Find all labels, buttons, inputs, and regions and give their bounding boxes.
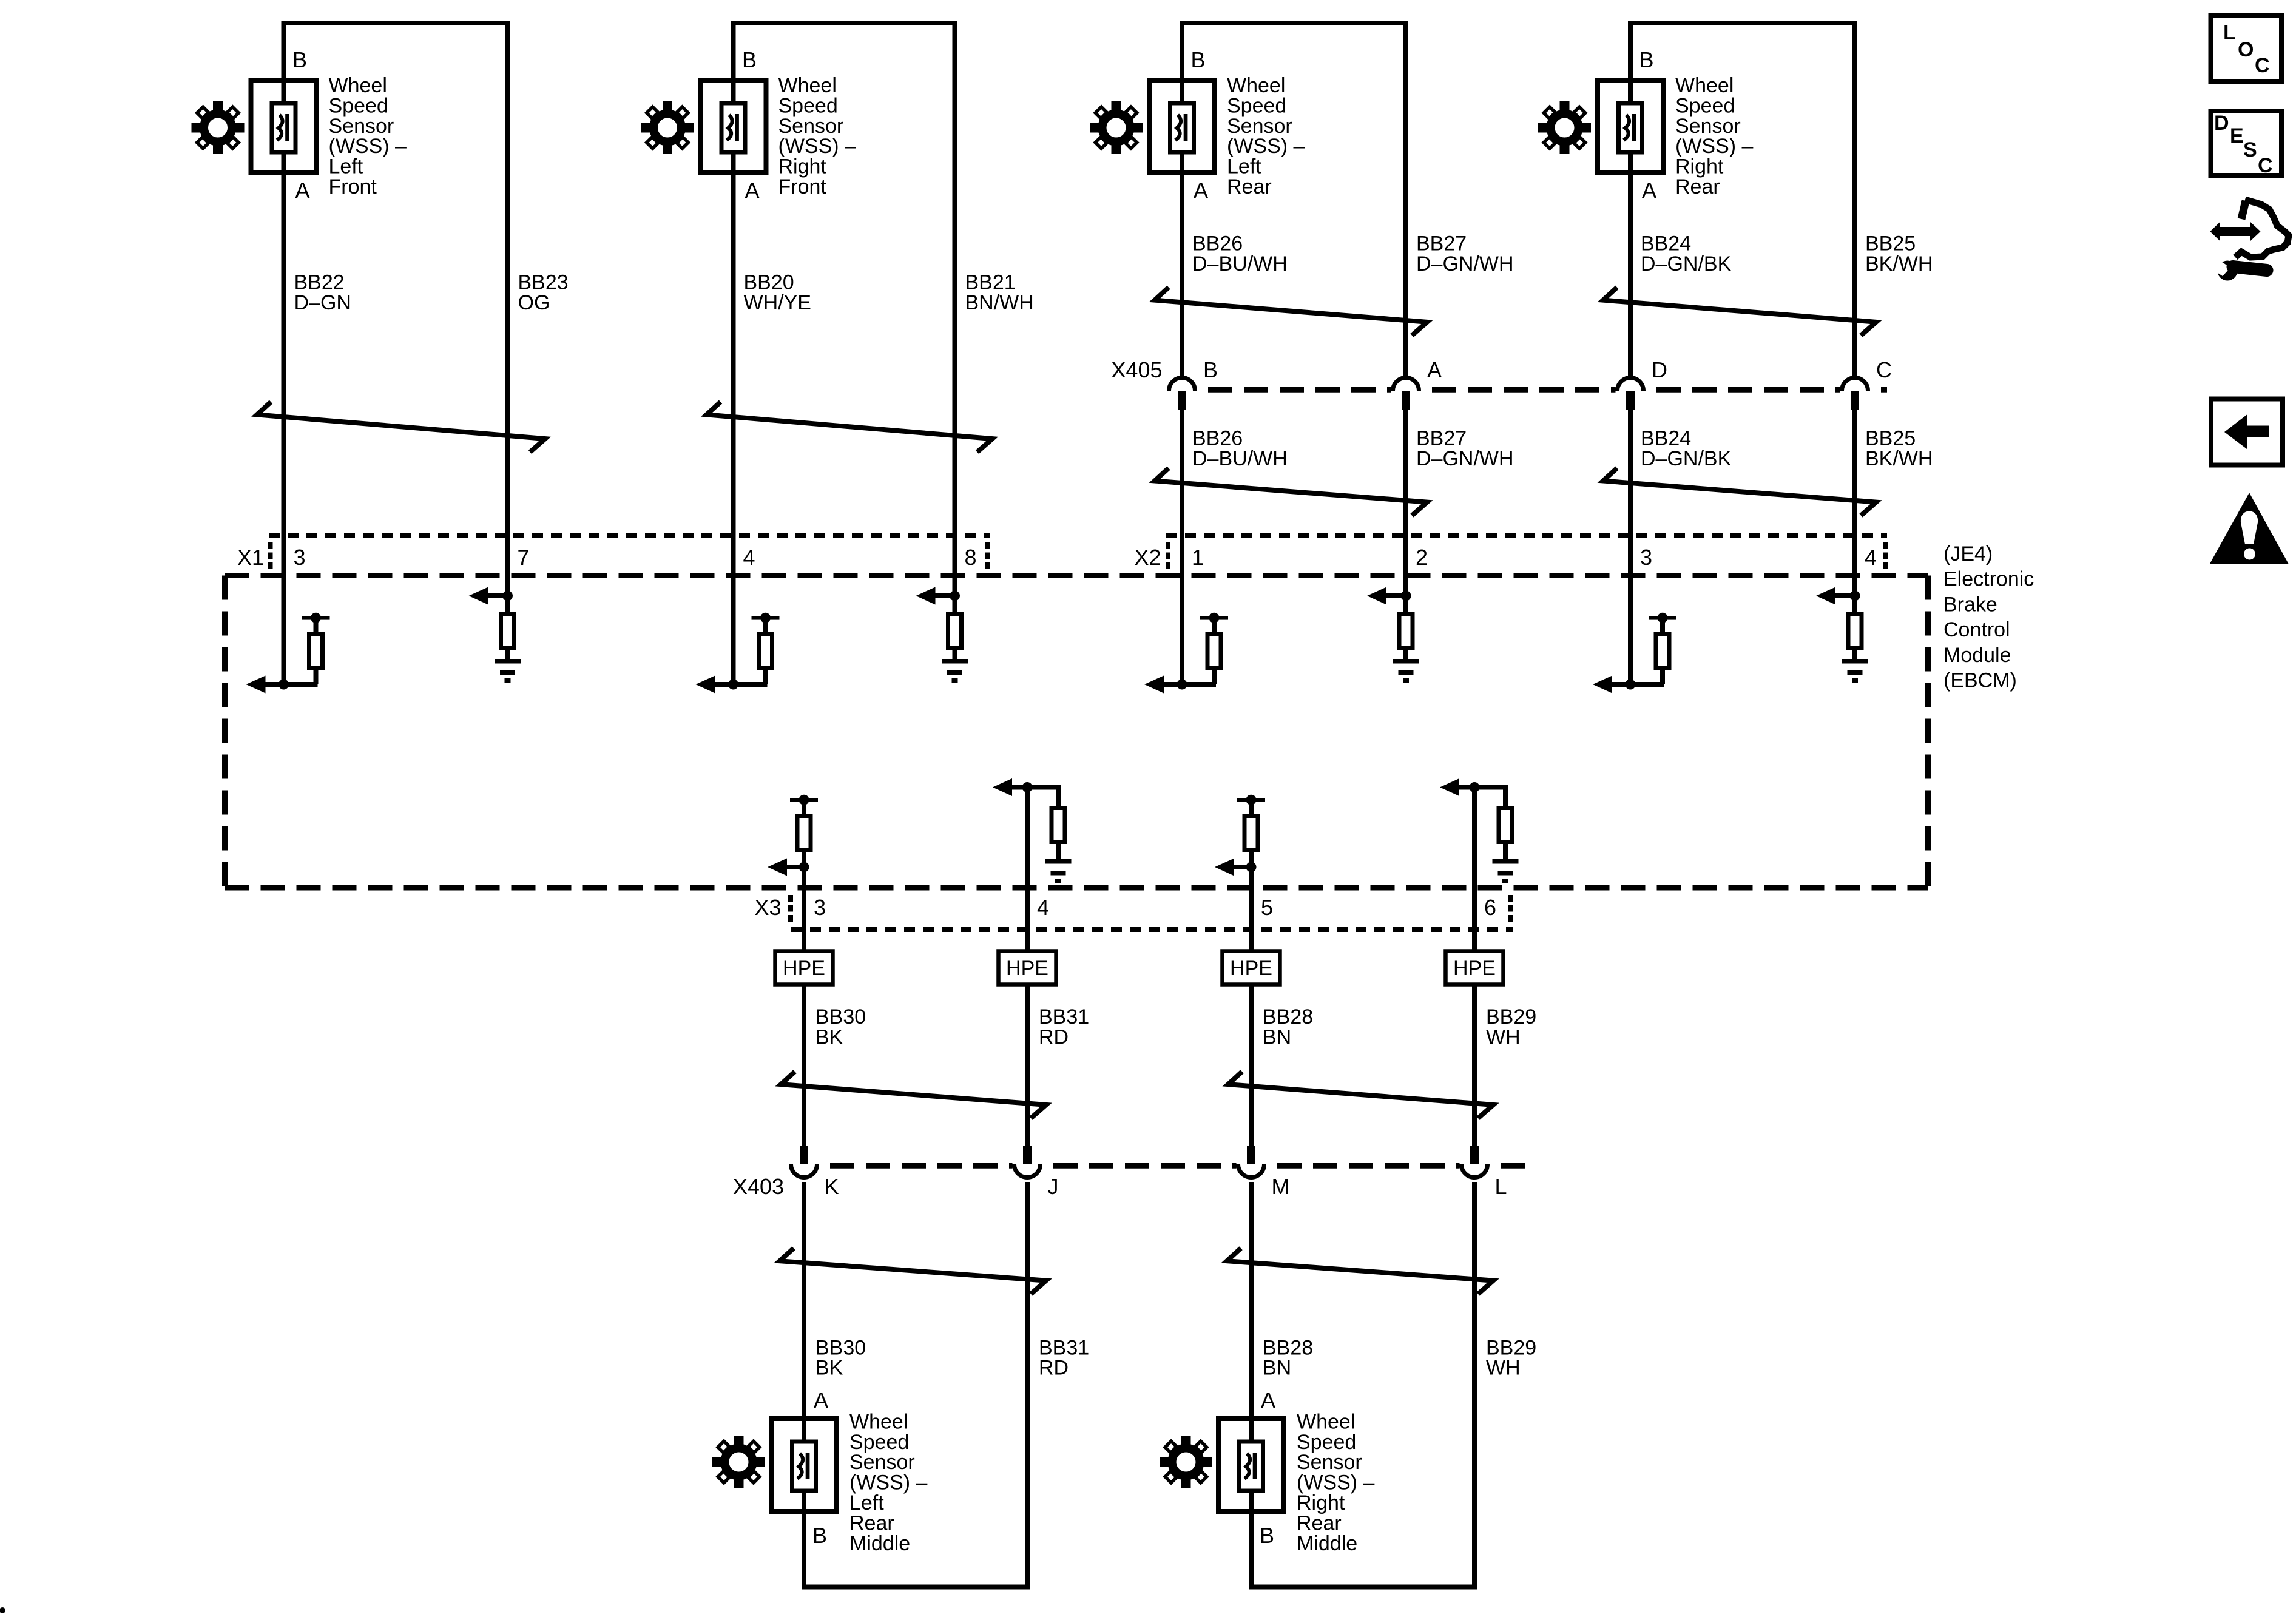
connector X1 right end cap <box>985 542 990 570</box>
wire: WSS-LRM bottom bus <box>802 1585 1030 1590</box>
connector X405 terminal B <box>1169 378 1195 410</box>
icon LOC box <box>2211 16 2282 82</box>
connector X3 dotted line <box>791 927 1513 932</box>
resistor X2 pin 1 <box>1207 635 1221 669</box>
twisted pair symbol loop 4 upper <box>1603 288 1876 336</box>
wire: loop 2 left vertical through sensor <box>731 21 736 173</box>
junction dot X1 pin 8 <box>950 591 960 601</box>
svg-text:J: J <box>1048 1174 1059 1199</box>
resistor X1 pin 4 <box>759 635 772 669</box>
resistor X2 pin 2 <box>1399 615 1413 649</box>
connector X3 left end cap <box>788 895 793 923</box>
wheel speed sensor WSS3 body <box>1149 80 1215 173</box>
ground X2 pin 4 <box>1842 659 1868 683</box>
svg-text:HPE: HPE <box>1006 957 1048 980</box>
EBCM module dashed border top <box>225 573 1928 578</box>
arrow X2 pin 2 internal <box>1367 587 1386 605</box>
arrow X3 pin 4 internal <box>993 778 1012 796</box>
svg-text:B: B <box>1639 47 1654 72</box>
connector X2 dotted line <box>1166 533 1887 538</box>
connector X403 terminal J <box>1015 1146 1041 1178</box>
icon DESC box <box>2211 111 2282 175</box>
icon back-arrow box <box>2211 399 2283 465</box>
wire: X2 pin 1 junction horizontal <box>1161 682 1216 687</box>
wheel speed sensor WSS-LRM body <box>771 1419 837 1511</box>
wheel speed sensor WSS2 gear <box>632 92 703 163</box>
wire: X3 pin 3 down to connector <box>802 867 806 951</box>
resistor X1 pin 7 <box>501 615 515 649</box>
ground X3 pin 6 <box>1493 859 1519 883</box>
junction dot X1 pin 4 <box>728 680 738 690</box>
wire: BB29 X403 down <box>1472 1182 1477 1585</box>
wire: X2 pin 3 resistor top stub <box>1660 616 1665 635</box>
svg-text:X403: X403 <box>733 1174 784 1199</box>
icon connector-repair (double arrow, plug outline, wrench) <box>2210 200 2289 281</box>
connector X2 right end cap <box>1883 542 1888 570</box>
junction dot X3 pin 5 <box>1246 862 1257 873</box>
wire: BB29 HPE to X403 <box>1472 984 1477 1147</box>
svg-text:B: B <box>1260 1523 1274 1548</box>
wire: X1 pin 4 resistor top stub <box>763 616 768 635</box>
connector X405 terminal C <box>1842 378 1868 410</box>
wire: BB31 X403 down <box>1025 1182 1030 1585</box>
svg-text:B: B <box>1203 357 1218 382</box>
svg-text:A: A <box>814 1388 828 1413</box>
wire: loop 3 right side down to X405 <box>1403 21 1408 377</box>
wire: loop 4 left vertical through sensor <box>1628 21 1633 173</box>
wire: X2 pin 4 ground stub <box>1852 650 1857 660</box>
wire: X2 pin 2 ground stub <box>1403 650 1408 660</box>
wire: WSS-LRM right side up to bus <box>1025 1585 1030 1587</box>
twisted pair symbol loop 3 lower <box>1155 468 1427 516</box>
svg-text:3: 3 <box>1640 545 1652 570</box>
svg-text:HPE: HPE <box>783 957 825 980</box>
wire: X1 pin 4 internal stub <box>731 570 736 684</box>
wire: BB28 X403 down <box>1249 1182 1254 1511</box>
wire: X3 pin 3 resistor top stub <box>802 800 806 816</box>
svg-text:C: C <box>1876 357 1892 382</box>
svg-text:4: 4 <box>743 545 755 570</box>
wire: X3 pin 3 resistor to junction <box>802 849 806 869</box>
junction dot X2 pin 1 <box>1177 680 1187 690</box>
HPE splice box at x=2430 <box>1446 951 1504 985</box>
wire: X2 pin 1 resistor top stub <box>1212 616 1217 635</box>
wire: X1 pin 3 resistor top stub <box>314 616 319 635</box>
svg-text:7: 7 <box>518 545 530 570</box>
wire: X1 pin 8 internal stub <box>953 570 957 614</box>
junction dot X3 pin 3 <box>799 862 809 873</box>
ground X3 pin 4 <box>1045 859 1072 883</box>
wire: loop 3 A-side X405 to EBCM <box>1180 410 1184 684</box>
svg-text:B: B <box>812 1523 827 1548</box>
junction dot X3 pin 6 <box>1470 782 1480 792</box>
svg-text:M: M <box>1272 1174 1290 1199</box>
HPE splice box at x=1693 <box>999 951 1056 985</box>
twisted pair symbol BB30/BB31 above X403 <box>781 1072 1046 1118</box>
wire: top loop 3 B-side bus <box>1180 21 1408 25</box>
wire: loop 2 right side down to EBCM <box>953 21 957 596</box>
wire: X3 pin 5 junction horizontal <box>1231 865 1251 869</box>
wheel speed sensor WSS2 body <box>701 80 766 173</box>
wire: BB30 HPE to X403 <box>802 984 806 1147</box>
wire: X2 pin 1 resistor riser <box>1212 667 1217 684</box>
svg-text:A: A <box>1194 178 1208 203</box>
wire: X3 pin 3 junction horizontal <box>783 865 804 869</box>
supply T-bar X2 pin 3 <box>1649 613 1676 623</box>
arrow X3 pin 6 internal <box>1440 778 1459 796</box>
svg-text:L: L <box>1495 1174 1507 1199</box>
wire: loop 4 right side down to X405 <box>1852 21 1857 377</box>
wire: X2 pin 3 internal stub <box>1628 570 1633 684</box>
resistor X3 pin 3 <box>797 816 811 850</box>
wire: loop 4 right side X405 to EBCM <box>1852 410 1857 596</box>
resistor X3 pin 6 <box>1499 808 1512 842</box>
wire: WSS-RRM B-side down <box>1249 1510 1254 1587</box>
wire: top loop 2 B-side bus <box>731 21 957 25</box>
EBCM module dashed border left <box>222 576 228 888</box>
wire: X1 pin 8 junction horizontal <box>934 593 955 598</box>
ground X2 pin 2 <box>1393 659 1419 683</box>
wire: X3 pin 4 resistor drop <box>1056 785 1061 809</box>
EBCM module dashed border right <box>1925 576 1931 888</box>
wheel speed sensor WSS1 gear <box>182 92 253 163</box>
wire: top loop 1 B-side bus <box>282 21 510 25</box>
wire: X2 pin 1 internal stub <box>1180 570 1184 684</box>
wire: loop 1 right side down to EBCM <box>505 21 510 596</box>
wheel speed sensor WSS4 gear <box>1529 92 1600 163</box>
HPE splice box at x=2062 <box>1223 951 1280 985</box>
svg-text:A: A <box>1427 357 1442 382</box>
wire: WSS-RRM right side up to bus <box>1472 1585 1477 1587</box>
twisted pair symbol loop 1 <box>257 402 545 452</box>
wire: X2 pin 2 junction horizontal <box>1385 593 1406 598</box>
connector X403 terminal M <box>1238 1146 1264 1178</box>
connector X1 left end cap <box>268 542 273 570</box>
resistor X3 pin 5 <box>1244 816 1258 850</box>
twisted pair symbol BB30/BB31 below X403 <box>780 1248 1046 1294</box>
svg-text:BB22D–GN: BB22D–GN <box>294 271 351 314</box>
wire: BB30 X403 down <box>802 1182 806 1511</box>
wire: X1 pin 4 resistor riser <box>763 667 768 684</box>
svg-text:4: 4 <box>1037 895 1049 920</box>
arrow X3 pin 5 internal <box>1215 859 1234 876</box>
connector X405 terminal A <box>1393 378 1419 410</box>
icon warning triangle <box>2210 493 2289 564</box>
wire: X1 pin 7 ground stub <box>505 650 510 660</box>
wire: WSS-LRM B-side down <box>802 1510 806 1587</box>
svg-text:D: D <box>1652 357 1667 382</box>
wheel speed sensor WSS-LRM gear <box>703 1426 774 1497</box>
arrow X1 pin 8 internal <box>916 587 936 605</box>
junction dot X1 pin 7 <box>502 591 513 601</box>
twisted pair symbol loop 4 lower <box>1603 468 1876 516</box>
connector X403 terminal L <box>1462 1146 1488 1178</box>
junction dot X2 pin 4 <box>1850 591 1860 601</box>
junction dot X1 pin 3 <box>279 680 289 690</box>
svg-text:X3: X3 <box>754 895 781 920</box>
supply T-bar X3 pin 5 <box>1237 795 1265 805</box>
wire: X3 pin 6 resistor drop <box>1503 785 1508 809</box>
svg-text:B: B <box>1191 47 1206 72</box>
svg-text:A: A <box>1642 178 1656 203</box>
wire: top loop 4 B-side bus <box>1628 21 1857 25</box>
arrow X1 pin 4 internal <box>696 676 715 694</box>
twisted pair symbol loop 3 upper <box>1155 288 1427 336</box>
wire: X2 pin 4 internal stub <box>1852 570 1857 614</box>
connector X1 dotted line <box>269 533 990 538</box>
wire: BB31 HPE to X403 <box>1025 984 1030 1147</box>
svg-text:X1: X1 <box>237 545 264 570</box>
HPE splice box at x=1325 <box>775 951 833 985</box>
arrow X2 pin 3 internal <box>1593 676 1612 694</box>
wire: loop 4 A-side X405 to EBCM <box>1628 410 1633 684</box>
arrow X3 pin 3 internal <box>768 859 787 876</box>
resistor X3 pin 4 <box>1052 808 1065 842</box>
wire: X2 pin 2 internal stub <box>1403 570 1408 614</box>
wire: X3 pin 4 ground stub <box>1056 844 1061 860</box>
junction dot X2 pin 3 <box>1626 680 1636 690</box>
resistor X1 pin 3 <box>309 635 323 669</box>
wire: X1 pin 7 internal stub <box>505 570 510 614</box>
wire: loop 1 left vertical through sensor <box>282 21 286 173</box>
connector X403 terminal K <box>791 1146 817 1178</box>
wire: X2 pin 3 resistor riser <box>1660 667 1665 684</box>
wire: X1 pin 3 internal stub <box>282 570 286 684</box>
junction dot X2 pin 2 <box>1401 591 1411 601</box>
svg-text:1: 1 <box>1192 545 1204 570</box>
connector X403 dashed line <box>830 1163 1533 1169</box>
wire: X1 pin 3 junction horizontal <box>263 682 318 687</box>
svg-text:2: 2 <box>1416 545 1428 570</box>
ground X1 pin 8 <box>942 659 968 683</box>
wheel speed sensor WSS-RRM gear <box>1150 1426 1221 1497</box>
svg-text:3: 3 <box>294 545 306 570</box>
svg-text:6: 6 <box>1484 895 1496 920</box>
svg-text:A: A <box>295 178 310 203</box>
svg-text:X2: X2 <box>1134 545 1161 570</box>
wire: X1 pin 3 resistor riser <box>314 667 319 684</box>
wire: BB28 HPE to X403 <box>1249 984 1254 1147</box>
svg-text:B: B <box>292 47 307 72</box>
ground X1 pin 7 <box>495 659 521 683</box>
supply T-bar X3 pin 3 <box>790 795 818 805</box>
wire: loop 1 A-side down to EBCM <box>282 173 286 684</box>
connector X2 left end cap <box>1166 542 1170 570</box>
junction dot X3 pin 4 <box>1022 782 1033 792</box>
wire: X3 pin 4 junction horizontal <box>1009 785 1058 790</box>
twisted pair symbol BB28/BB29 below X403 <box>1227 1248 1493 1294</box>
connector X405 dashed line <box>1208 387 1887 393</box>
wheel speed sensor WSS1 body <box>251 80 317 173</box>
wire: loop 3 left vertical through sensor <box>1180 21 1184 173</box>
svg-text:A: A <box>1261 1388 1275 1413</box>
arrow X1 pin 7 internal <box>469 587 488 605</box>
svg-text:4: 4 <box>1865 545 1877 570</box>
svg-text:HPE: HPE <box>1230 957 1272 980</box>
period mark bottom-left <box>0 1607 5 1613</box>
wire: X2 pin 3 junction horizontal <box>1610 682 1664 687</box>
svg-text:8: 8 <box>965 545 977 570</box>
wheel speed sensor WSS-RRM body <box>1218 1419 1284 1511</box>
supply T-bar X1 pin 3 <box>302 613 330 623</box>
svg-text:5: 5 <box>1261 895 1273 920</box>
wire: X3 pin 5 resistor to junction <box>1249 849 1254 869</box>
connector X405 terminal D <box>1618 378 1644 410</box>
wire: X3 pin 4 up from connector <box>1025 788 1030 951</box>
wire: X3 pin 5 down to connector <box>1249 867 1254 951</box>
arrow X2 pin 1 internal <box>1144 676 1164 694</box>
resistor X2 pin 4 <box>1848 615 1862 649</box>
connector X3 right end cap <box>1508 895 1513 923</box>
wire: loop 3 A-side down to X405 <box>1180 173 1184 377</box>
wire: X1 pin 4 junction horizontal <box>713 682 768 687</box>
svg-text:X405: X405 <box>1111 357 1162 382</box>
wire: WSS-RRM bottom bus <box>1249 1585 1477 1590</box>
svg-text:A: A <box>745 178 760 203</box>
resistor X2 pin 3 <box>1656 635 1669 669</box>
wire: X1 pin 8 ground stub <box>953 650 957 660</box>
svg-text:K: K <box>825 1174 839 1199</box>
wire: X3 pin 6 ground stub <box>1503 844 1508 860</box>
svg-text:B: B <box>742 47 757 72</box>
resistor X1 pin 8 <box>948 615 962 649</box>
twisted pair symbol loop 2 <box>707 402 993 452</box>
wire: X1 pin 7 junction horizontal <box>487 593 508 598</box>
wheel speed sensor WSS4 body <box>1598 80 1663 173</box>
wire: loop 2 A-side down to EBCM <box>731 173 736 684</box>
twisted pair symbol BB28/BB29 above X403 <box>1228 1072 1493 1118</box>
arrow X2 pin 4 internal <box>1816 587 1835 605</box>
supply T-bar X2 pin 1 <box>1200 613 1228 623</box>
wire: X3 pin 6 up from connector <box>1472 788 1477 951</box>
wire: X3 pin 5 resistor top stub <box>1249 800 1254 816</box>
wheel speed sensor WSS3 gear <box>1081 92 1152 163</box>
wire: loop 4 A-side down to X405 <box>1628 173 1633 377</box>
wire: loop 3 right side X405 to EBCM <box>1403 410 1408 596</box>
svg-text:3: 3 <box>814 895 826 920</box>
wire: X2 pin 4 junction horizontal <box>1834 593 1855 598</box>
arrow X1 pin 3 internal <box>246 676 266 694</box>
EBCM module dashed border bottom <box>225 885 1928 891</box>
svg-text:HPE: HPE <box>1453 957 1496 980</box>
wire: X3 pin 6 junction horizontal <box>1456 785 1505 790</box>
supply T-bar X1 pin 4 <box>752 613 780 623</box>
